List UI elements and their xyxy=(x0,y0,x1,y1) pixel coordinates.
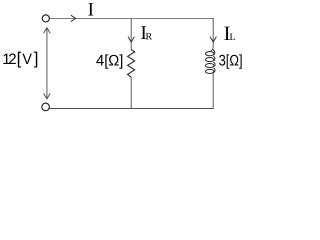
voltage arrow 12V double-headed xyxy=(44,28,51,99)
wire bottom horizontal xyxy=(49,108,213,110)
svg-text:]: ] xyxy=(34,49,39,68)
wire right branch upper xyxy=(210,19,213,52)
current arrow IL xyxy=(210,37,216,42)
svg-text:3[Ω]: 3[Ω] xyxy=(219,53,243,70)
svg-text:I: I xyxy=(88,0,94,21)
svg-text:R: R xyxy=(146,31,153,42)
wire top horizontal xyxy=(49,18,213,20)
resistor 4ohm zigzag xyxy=(128,50,135,78)
svg-text:V: V xyxy=(22,51,32,68)
wire middle branch upper xyxy=(130,19,132,50)
svg-text:4[Ω]: 4[Ω] xyxy=(96,53,123,70)
terminal top-left xyxy=(42,15,49,22)
inductor 3ohm coil xyxy=(206,49,216,73)
svg-text:2: 2 xyxy=(8,51,16,68)
wire right branch lower xyxy=(212,73,214,109)
svg-text:[: [ xyxy=(17,49,22,68)
terminal bottom-left xyxy=(42,103,50,111)
current arrow IR xyxy=(128,37,134,42)
current arrow I on top wire xyxy=(71,15,76,21)
wire middle branch lower xyxy=(130,77,132,109)
svg-text:L: L xyxy=(230,32,236,43)
